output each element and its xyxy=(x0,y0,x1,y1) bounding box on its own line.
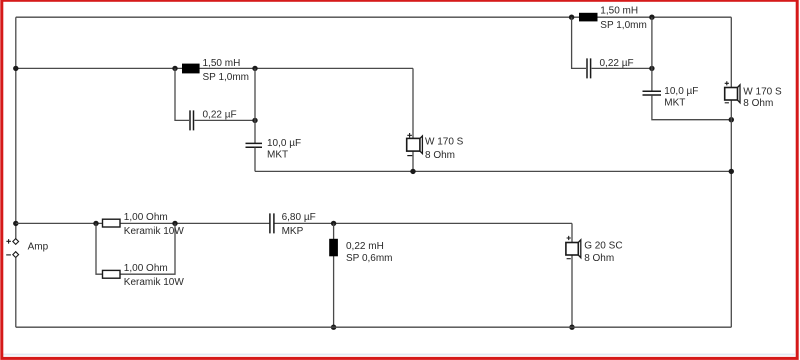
svg-text:W 170 S: W 170 S xyxy=(425,137,464,148)
svg-text:SP 0,6mm: SP 0,6mm xyxy=(346,253,393,264)
svg-text:SP 1,0mm: SP 1,0mm xyxy=(203,72,250,83)
svg-text:0,22 µF: 0,22 µF xyxy=(600,58,634,69)
node bypass/shunt junction xyxy=(252,118,257,123)
svg-text:Keramik 10W: Keramik 10W xyxy=(124,277,185,288)
node speaker bottom junction xyxy=(410,169,415,174)
node shunt inductor top xyxy=(331,221,336,226)
wire bypass right (right section) xyxy=(592,67,652,69)
svg-text:6,80 µF: 6,80 µF xyxy=(282,212,316,223)
wire low-pass main (left part) xyxy=(16,222,270,224)
wire shunt inductor drop xyxy=(333,223,335,327)
capacitor 6,80 uF MKP xyxy=(270,212,316,237)
resistor 1,00 Ohm (upper) xyxy=(103,212,185,237)
wire left mid horizontal xyxy=(16,67,413,69)
amp plus terminal xyxy=(13,239,19,245)
speaker W 170 S (right) xyxy=(725,81,782,109)
svg-text:1,00 Ohm: 1,00 Ohm xyxy=(124,263,168,274)
svg-text:W 170 S: W 170 S xyxy=(743,86,782,97)
capacitor 0,22 uF (right) xyxy=(587,58,634,78)
wire amp minus to bottom bus xyxy=(15,258,17,328)
node bottom-bus/right-bus junction xyxy=(729,169,734,174)
wire right bus vertical xyxy=(730,17,732,327)
wire shunt cap drop (right) xyxy=(651,17,653,91)
node resistor pair left xyxy=(93,221,98,226)
wire resistor-2 left leg xyxy=(96,223,103,274)
svg-text:1,50 mH: 1,50 mH xyxy=(203,58,241,69)
capacitor 0,22 uF (left) xyxy=(190,109,237,130)
wire shunt cap to speaker-bottom node (right) xyxy=(652,95,731,119)
wire bottom bus xyxy=(16,326,732,328)
wire shunt cap drop xyxy=(254,68,256,143)
node bypass/shunt junction (right) xyxy=(649,66,654,71)
node cap/speaker junction (right) xyxy=(729,117,734,122)
node speaker bottom (G 20 SC) xyxy=(569,325,574,330)
svg-text:0,22 µF: 0,22 µF xyxy=(203,109,237,120)
node top bus right junction xyxy=(649,15,654,20)
wire bypass right xyxy=(195,119,256,121)
faint scrollbar line xyxy=(3,354,795,356)
svg-text:1,00 Ohm: 1,00 Ohm xyxy=(124,212,168,223)
svg-text:MKP: MKP xyxy=(282,226,304,237)
wire low-pass main (right part) xyxy=(274,222,572,224)
capacitor 10,0 uF MKT (right) xyxy=(643,86,699,108)
inductor 1,50 mH (right) xyxy=(579,6,647,31)
node right of inductor xyxy=(252,66,257,71)
svg-text:MKT: MKT xyxy=(664,97,685,108)
wire bypass drop (right) xyxy=(572,17,586,68)
wire left-section bottom bus xyxy=(255,170,731,172)
node left bus / amp wire junction xyxy=(13,221,18,226)
wire shunt cap to bottom xyxy=(254,148,256,172)
wire bypass left drop xyxy=(175,68,189,120)
inductor 0,22 mH xyxy=(329,239,392,264)
speaker W 170 S (left) xyxy=(407,133,464,161)
node left of inductor xyxy=(172,66,177,71)
svg-text:Amp: Amp xyxy=(28,241,49,252)
svg-text:10,0 µF: 10,0 µF xyxy=(267,138,301,149)
amp minus terminal xyxy=(13,252,19,258)
svg-text:MKT: MKT xyxy=(267,150,288,161)
svg-text:G 20 SC: G 20 SC xyxy=(584,241,622,252)
capacitor 10,0 uF MKT (left) xyxy=(246,138,302,161)
svg-text:1,50 mH: 1,50 mH xyxy=(600,6,638,17)
svg-text:8 Ohm: 8 Ohm xyxy=(743,98,773,109)
wire speaker drop (G 20 SC) xyxy=(571,223,573,327)
wire speaker drop (left W 170 S) xyxy=(412,68,414,171)
node left-bus/mid-wire junction xyxy=(13,66,18,71)
node resistor pair right xyxy=(172,221,177,226)
wire resistor-2 right leg xyxy=(120,223,175,274)
svg-text:8 Ohm: 8 Ohm xyxy=(584,253,614,264)
amp minus sign xyxy=(6,254,11,256)
svg-text:0,22 mH: 0,22 mH xyxy=(346,241,384,252)
svg-text:SP 1,0mm: SP 1,0mm xyxy=(600,20,647,31)
svg-text:10,0 µF: 10,0 µF xyxy=(664,86,698,97)
wire left bus vertical xyxy=(15,17,17,238)
svg-text:8 Ohm: 8 Ohm xyxy=(425,150,455,161)
node top bus left junction (right section) xyxy=(569,15,574,20)
node shunt inductor bottom xyxy=(331,325,336,330)
amp plus sign xyxy=(6,239,10,244)
wire top bus xyxy=(16,16,732,18)
inductor 1,50 mH (left) xyxy=(182,58,249,83)
speaker G 20 SC xyxy=(566,236,623,264)
resistor 1,00 Ohm (lower) xyxy=(103,263,185,288)
